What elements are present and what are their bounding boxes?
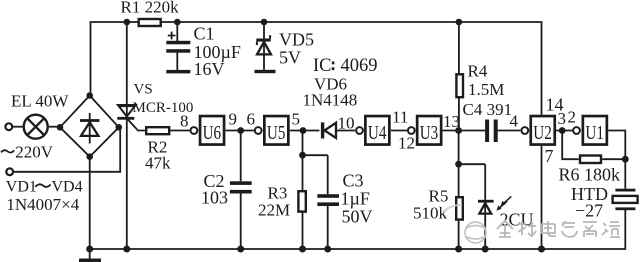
svg-text:VD5: VD5: [279, 30, 314, 50]
wire U2 out: [556, 130, 573, 132]
node: [174, 19, 181, 26]
svg-text:4: 4: [510, 112, 519, 131]
node: [455, 161, 462, 168]
svg-text:1N4007×4: 1N4007×4: [6, 195, 79, 214]
resistor R6: [580, 156, 601, 164]
svg-text:−27: −27: [575, 201, 603, 221]
node: [324, 246, 331, 253]
svg-text:3: 3: [558, 109, 567, 128]
resistor R1: [139, 19, 161, 26]
node: [622, 156, 629, 163]
bridge rectifier VD1-VD4: [60, 96, 119, 157]
zener diode VD5: [255, 22, 276, 73]
node bridge top: [86, 92, 93, 99]
inverter U3: [408, 116, 441, 145]
inverter U6: [191, 116, 225, 145]
wire U2 out feedback: [562, 131, 579, 160]
photodiode VD 2CU: [478, 196, 511, 249]
svg-text:1.5M: 1.5M: [468, 80, 504, 99]
inverter U5: [255, 116, 289, 145]
wire node13 down: [459, 131, 486, 200]
inverter U2: [521, 116, 554, 145]
wire U1 out: [608, 131, 625, 160]
svg-text:R4: R4: [468, 62, 488, 81]
svg-text:4069: 4069: [341, 56, 378, 76]
resistor R3: [298, 131, 305, 250]
svg-text:1N4148: 1N4148: [303, 91, 358, 110]
svg-text:U6: U6: [203, 122, 222, 144]
node: [300, 127, 307, 134]
svg-text:9: 9: [229, 110, 238, 129]
svg-text:C3: C3: [343, 171, 364, 191]
svg-text:16V: 16V: [194, 59, 225, 79]
svg-text:47k: 47k: [145, 154, 171, 173]
node bridge right: [116, 124, 123, 131]
node bridge bottom: [86, 153, 93, 160]
node: [455, 246, 462, 253]
node: [299, 246, 306, 253]
lamp EL: [24, 115, 48, 139]
node: [299, 152, 306, 159]
svg-text:12: 12: [398, 134, 415, 153]
svg-text:10: 10: [338, 114, 355, 133]
svg-text:VD1: VD1: [6, 179, 37, 196]
wire: [13, 127, 120, 172]
node bottom-left junction: [86, 246, 93, 253]
terminal input B: [6, 168, 13, 175]
capacitor C3: [303, 155, 340, 249]
svg-text:R6 180k: R6 180k: [559, 165, 621, 185]
node: [237, 127, 244, 134]
svg-text:EL 40W: EL 40W: [11, 92, 69, 111]
wire U5 out: [290, 130, 320, 132]
svg-text:11: 11: [392, 108, 408, 127]
inverter U1: [573, 116, 607, 145]
svg-text:U2: U2: [533, 122, 552, 144]
svg-text:50V: 50V: [342, 207, 373, 227]
svg-text:VS: VS: [134, 82, 153, 98]
svg-text:510k: 510k: [413, 204, 448, 223]
svg-text:7: 7: [545, 146, 554, 166]
node: [482, 246, 489, 253]
watermark text: [497, 221, 620, 237]
svg-text:2: 2: [568, 108, 577, 127]
node: [559, 127, 566, 134]
svg-text:C4 391: C4 391: [463, 100, 513, 119]
svg-text:1µF: 1µF: [341, 189, 370, 209]
svg-text:22M: 22M: [258, 201, 290, 220]
resistor R5: [456, 164, 463, 249]
svg-text:IC: IC: [313, 56, 332, 76]
wire: [602, 158, 625, 160]
wire to HTD: [624, 159, 626, 189]
wire R2 to U6: [170, 130, 189, 132]
svg-text:13: 13: [443, 112, 460, 131]
svg-text:6: 6: [247, 110, 256, 129]
ground: [89, 249, 91, 259]
svg-text:220V: 220V: [15, 142, 54, 161]
svg-text:VD4: VD4: [52, 179, 83, 196]
svg-text:U1: U1: [585, 122, 604, 144]
resistor R4: [456, 22, 463, 131]
node: [456, 19, 463, 26]
wire: [48, 126, 60, 128]
wire top rail: [91, 22, 542, 115]
node: [123, 246, 130, 253]
wire U2 pin7 down: [541, 146, 543, 249]
svg-text:5: 5: [292, 110, 301, 129]
svg-text:R1 220k: R1 220k: [121, 0, 180, 17]
svg-text:5V: 5V: [279, 48, 301, 68]
capacitor C4: [485, 120, 520, 143]
node: [538, 246, 545, 253]
svg-text:U4: U4: [368, 122, 387, 144]
resistor R2: [146, 127, 169, 134]
capacitor C2: [230, 131, 252, 250]
thyristor VS: [117, 22, 145, 249]
node bridge left: [57, 124, 64, 131]
svg-text:103: 103: [201, 188, 228, 208]
wire U4 out: [391, 130, 408, 132]
node: [455, 127, 462, 134]
wire U3 out: [443, 130, 486, 132]
piezo sounder HTD: [613, 189, 638, 211]
node: [124, 19, 131, 26]
wire U6 out: [226, 130, 255, 132]
svg-text:U5: U5: [267, 122, 286, 144]
label 220V: [1, 150, 14, 152]
svg-text:8: 8: [180, 112, 189, 131]
svg-text:C1: C1: [194, 24, 215, 44]
inverter U4: [356, 116, 389, 145]
terminal input A: [5, 123, 12, 130]
node: [237, 246, 244, 253]
watermark logo: [443, 205, 486, 243]
svg-text:U3: U3: [420, 122, 439, 144]
wire bottom rail: [90, 210, 626, 249]
wire: [12, 126, 24, 128]
node: [261, 19, 268, 26]
wire bridge bottom to rail: [89, 157, 91, 249]
capacitor C1: [166, 22, 190, 73]
diode VD6: [321, 122, 355, 138]
